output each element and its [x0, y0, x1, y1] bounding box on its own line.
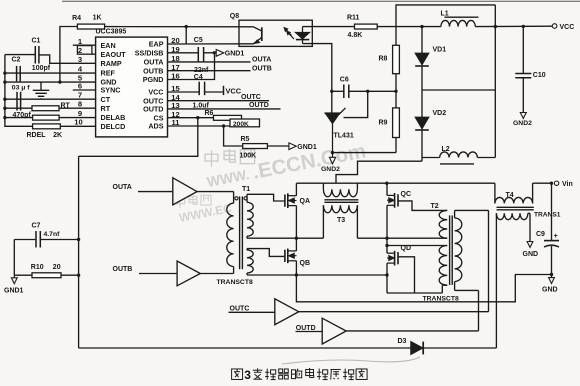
svg-text:Vin: Vin [562, 181, 573, 188]
node C7 rail tap [77, 238, 80, 241]
wire EAP drop [185, 27, 187, 44]
svg-text:C2: C2 [12, 57, 21, 64]
resistor R4 [77, 24, 104, 29]
wire pin1 stub [73, 44, 96, 46]
wire C1 to pin3 [39, 55, 96, 63]
wire pin18 OUTA line [168, 61, 251, 63]
wire pin8 line [5, 107, 32, 109]
svg-text:D3: D3 [398, 338, 407, 345]
svg-text:RT: RT [61, 102, 71, 109]
svg-text:TL431: TL431 [334, 133, 354, 140]
svg-text:OUTB: OUTB [113, 266, 133, 273]
node QB source rail [295, 273, 298, 276]
wire bridge rail [296, 182, 495, 184]
inductor L2 bar [440, 163, 474, 165]
diode VD1 [421, 27, 423, 54]
wire T2 lower top [387, 245, 447, 247]
svg-text:EAP: EAP [149, 40, 164, 49]
wire C1 left [5, 54, 35, 56]
svg-text:OUTA: OUTA [144, 58, 164, 67]
ground on pin5 [40, 82, 42, 90]
optocoupler light arrows [285, 29, 291, 36]
wire pin4 line [5, 72, 96, 74]
capacitor C9 [551, 183, 553, 240]
wire Vin rail [533, 182, 553, 184]
svg-text:GND2: GND2 [321, 166, 340, 173]
wire T4 sec right to GND [528, 212, 530, 214]
node rail-pin7 [3, 98, 6, 101]
wire QD source to T2 bottom [387, 292, 442, 294]
transformer T1 polarity dots [235, 197, 238, 200]
svg-text:C1: C1 [32, 38, 41, 45]
node T3 left tap [295, 237, 298, 240]
node R10 rail tap [77, 274, 80, 277]
diode D3 [411, 342, 423, 355]
resistor 200K box [230, 119, 260, 127]
wire pin7 line [5, 98, 96, 100]
caption text [232, 369, 243, 379]
transformer T2 upper left winding [439, 210, 447, 238]
wire GND return [296, 275, 551, 302]
wire OUTC output [299, 311, 489, 313]
inductor L1 bar [445, 16, 479, 18]
svg-text:DELAB: DELAB [101, 113, 126, 122]
capacitor C1 [34, 46, 36, 64]
wire T2 right top to OUTC [455, 209, 489, 211]
ground GND arrow T4 [527, 242, 533, 248]
wire TL431 ref [344, 91, 368, 117]
svg-text:1K: 1K [93, 15, 102, 22]
resistor RT [32, 106, 59, 111]
wire R5 to GND1 [267, 145, 288, 147]
wire R8node to L1 [396, 26, 441, 28]
svg-text:4.7nf: 4.7nf [44, 231, 61, 238]
resistor RDEL [33, 124, 61, 129]
buffer OUTA [173, 178, 197, 205]
transformer T1 secondary upper [246, 194, 248, 202]
wire CS down-left [79, 118, 198, 157]
svg-text:OUTB: OUTB [143, 66, 163, 75]
transistor Q8 phototransistor [261, 27, 263, 41]
wire pin15 VCC line [168, 91, 200, 93]
buffer OUTC [275, 299, 299, 325]
wire T2 upper bottom [387, 237, 447, 239]
wire opto to R11 [303, 26, 355, 28]
capacitor C4 [198, 82, 200, 96]
resistor R6 [214, 115, 242, 120]
svg-text:3: 3 [244, 368, 251, 382]
capacitor CT [16, 92, 18, 111]
node rail-EAP tap [185, 25, 188, 28]
transformer T1 secondary lower [246, 249, 248, 250]
svg-text:T2: T2 [431, 203, 439, 210]
buffer OUTD [322, 318, 346, 344]
ground GND2 arrow [332, 153, 334, 158]
wire pin2 stub [92, 53, 96, 55]
node left rail [5, 55, 33, 127]
node TL431 ref tap [366, 90, 369, 93]
node QD source rail [385, 273, 388, 276]
svg-text:+: + [554, 231, 559, 240]
svg-text:OUTD: OUTD [143, 105, 163, 114]
buffer OUTB [177, 261, 200, 286]
svg-text:VD2: VD2 [433, 110, 447, 117]
wire VD1-VD2 mid [422, 89, 495, 91]
box around pin 2 number [77, 46, 92, 55]
inductor L2 [422, 157, 440, 159]
wire T3 right to QC-QD node [357, 237, 387, 239]
svg-text:SYNC: SYNC [101, 86, 121, 95]
transformer T4 primary [494, 183, 496, 203]
node QC drain tap [385, 182, 388, 185]
svg-text:OUTD: OUTD [249, 102, 269, 109]
svg-text:100K: 100K [240, 153, 257, 160]
wire OUTD input [296, 331, 323, 333]
ground GND1 arrow pin19 [216, 50, 224, 57]
wire pin20 EAP line [168, 43, 254, 45]
node right-loop top [494, 25, 497, 28]
node VD1 tap [420, 25, 423, 28]
wire TL431 to R9 bottom [333, 152, 397, 154]
svg-text:R8: R8 [379, 56, 388, 63]
node rail-pin5 [3, 80, 6, 83]
svg-text:C6: C6 [340, 77, 349, 84]
resistor R5 [243, 144, 268, 149]
node QC-QD T3 tap [385, 237, 388, 240]
node GND2 junction [331, 151, 334, 154]
transformer T3 bottom winding [323, 205, 357, 212]
svg-text:RDEL: RDEL [27, 132, 47, 139]
svg-text:EAN: EAN [101, 41, 116, 50]
power VCC bar [223, 86, 225, 95]
wire L1 to VCC [475, 25, 552, 27]
node rail-pin9 [3, 116, 6, 119]
svg-text:6: 6 [78, 82, 82, 91]
inductor L1 [441, 20, 475, 26]
svg-text:GND1: GND1 [4, 287, 24, 294]
terminal VCC [552, 24, 557, 29]
svg-text:R6: R6 [205, 110, 214, 117]
svg-text:VCC: VCC [560, 24, 575, 31]
svg-text:GND1: GND1 [297, 144, 317, 151]
wire right loop vertical [494, 5, 496, 158]
wire T1 upper bottom to T3 [246, 236, 248, 238]
svg-text:L1: L1 [441, 10, 449, 17]
node C9 tap [550, 182, 553, 185]
wire T1 lower to QB gate [247, 249, 284, 257]
wire R5 drop [224, 126, 243, 146]
svg-text:OUTC: OUTC [230, 305, 250, 312]
wire T2 right bottom to OUTD [455, 289, 479, 291]
capacitor C2 [16, 66, 18, 81]
ground GND2 arrow C10 [520, 113, 526, 119]
wire pin14 OUTC line [168, 100, 270, 102]
node R4-pin5 [58, 80, 61, 83]
node CS tap [196, 116, 199, 119]
wire pin6 stub [73, 89, 96, 91]
wire OUTA to T1 [197, 191, 234, 193]
wire LED cathode to TL431 [303, 44, 332, 114]
resistor R-DELAB [33, 115, 60, 120]
transformer T2 right winding [454, 210, 456, 218]
svg-text:RT: RT [101, 104, 111, 113]
wire pin12 CS line [168, 117, 214, 119]
svg-text:QC: QC [401, 191, 412, 198]
wire top rail [396, 5, 495, 27]
svg-text:C5: C5 [194, 37, 203, 44]
svg-text:OUTC: OUTC [241, 94, 261, 101]
wire C7-R10 left [13, 240, 15, 276]
wire pin9 line [5, 117, 33, 119]
svg-text:C9: C9 [536, 231, 545, 238]
svg-text:03 μ f: 03 μ f [12, 85, 30, 92]
transformer T2 core [449, 215, 451, 285]
wire OUTB input [139, 273, 177, 275]
svg-text:SS/DISB: SS/DISB [135, 48, 164, 57]
wire T1 upper to QA gate [247, 194, 284, 201]
node rail-pin8 [3, 107, 6, 110]
wire pin10 line [60, 125, 95, 127]
wire QA drain [295, 183, 297, 196]
diode VD2 [421, 90, 423, 117]
svg-text:QA: QA [300, 198, 311, 205]
svg-text:100pf: 100pf [32, 65, 51, 72]
resistor R11 [355, 24, 378, 29]
wire QD source down [386, 263, 388, 293]
svg-text:GND1: GND1 [225, 51, 245, 58]
wire R4 left corner [60, 27, 78, 83]
wire left tall rail [78, 156, 80, 348]
watermark [175, 139, 367, 225]
svg-text:4.8K: 4.8K [348, 32, 363, 39]
resistor R8 [395, 27, 397, 46]
svg-text:3: 3 [78, 55, 82, 64]
svg-text:OUTD: OUTD [296, 325, 316, 332]
wire T2 lower bottom jog [442, 284, 447, 286]
svg-text:TRANS1: TRANS1 [534, 211, 561, 218]
photodiode Q8 LED [302, 27, 304, 33]
wire R11 to R8 node [377, 26, 396, 28]
transformer T1 core [239, 196, 241, 269]
resistor R9 [395, 91, 397, 108]
wire QC source to QD drain [386, 205, 388, 253]
scan artifact line [282, 357, 420, 364]
svg-text:QB: QB [300, 260, 311, 267]
wire pin16 PGND line [168, 55, 215, 80]
wire QC drain [386, 183, 388, 195]
transformer T3 core [324, 199, 358, 201]
svg-text:R11: R11 [347, 14, 360, 21]
transformer T2 lower left winding [439, 246, 447, 286]
svg-text:T1: T1 [242, 186, 250, 193]
svg-text:VD1: VD1 [433, 47, 447, 54]
wire bottom rail to D3 [79, 347, 411, 349]
svg-text:CT: CT [101, 95, 111, 104]
capacitor C10 [522, 26, 524, 73]
node rail-pin4 [3, 71, 6, 74]
svg-text:R5: R5 [241, 136, 250, 143]
wire QA source to QB drain [295, 206, 297, 251]
svg-text:REF: REF [101, 69, 116, 78]
terminal Vin [554, 181, 558, 185]
svg-text:C7: C7 [32, 223, 41, 230]
wire R4 to optocoupler [105, 26, 254, 28]
wire pin5 line [5, 81, 96, 83]
IC U1 body [96, 37, 168, 137]
svg-text:GND2: GND2 [513, 120, 532, 127]
border top edge [62, 0, 580, 2]
svg-text:C4: C4 [194, 74, 203, 81]
wire OUTC input [229, 311, 275, 313]
resistor R10 [14, 274, 32, 276]
node ADS tap [222, 124, 225, 127]
svg-text:OUTA: OUTA [252, 57, 271, 64]
transformer T1 primary [233, 192, 235, 204]
transformer T4 core [497, 206, 534, 208]
svg-text:EAOUT: EAOUT [101, 50, 127, 59]
svg-text:VCC: VCC [148, 88, 163, 97]
svg-text:20: 20 [53, 264, 61, 271]
transistor QB [284, 250, 286, 262]
ground GND1 arrow bottom left [13, 275, 15, 278]
wire OUTB to T1 [200, 273, 233, 275]
svg-text:GND: GND [523, 251, 539, 258]
svg-text:T3: T3 [337, 217, 345, 224]
svg-text:DELCD: DELCD [101, 122, 126, 131]
wire pin13 OUTD line [168, 108, 281, 110]
transistor QC [394, 193, 396, 208]
svg-text:2K: 2K [53, 132, 62, 139]
transformer T4 secondary [496, 213, 528, 219]
svg-text:8: 8 [78, 100, 82, 109]
node C9 GND junction [550, 273, 553, 276]
svg-text:Q8: Q8 [230, 13, 239, 20]
svg-text:OUTB: OUTB [252, 66, 272, 73]
svg-text:GND: GND [542, 286, 558, 293]
wire QB source [295, 261, 297, 275]
svg-text:PGND: PGND [143, 75, 164, 84]
node C6 left tap [330, 90, 333, 93]
wire bottom bridge rail [247, 274, 387, 276]
wire pin19 line [168, 52, 199, 54]
svg-text:R10: R10 [31, 264, 44, 271]
ground GND arrow C9 [551, 275, 553, 278]
svg-text:RAMP: RAMP [101, 59, 122, 68]
node R8-R9 [394, 90, 397, 93]
svg-text:C10: C10 [533, 72, 546, 79]
transistor QA [284, 195, 286, 207]
node T2 lower top tap [385, 244, 388, 247]
node pin19-pin16 join [213, 51, 216, 54]
ground GND1 arrow R5 [289, 143, 296, 150]
wire OUTD output [346, 330, 478, 332]
node C10 tap [522, 25, 525, 28]
svg-text:200K: 200K [233, 121, 249, 128]
capacitor C7 [14, 239, 35, 241]
svg-text:10: 10 [74, 118, 82, 127]
svg-text:VCC: VCC [226, 87, 242, 96]
wire OUTA input [138, 191, 173, 193]
wire QD gate [398, 257, 415, 293]
shunt regulator TL431 [325, 112, 341, 114]
svg-text:ADS: ADS [148, 122, 163, 131]
capacitor C5 [197, 47, 199, 62]
svg-text:OUTA: OUTA [113, 184, 132, 191]
wire D3 to T4 return [423, 347, 496, 349]
wire pin17 OUTB line [168, 70, 251, 72]
transformer T3 top winding [322, 183, 324, 189]
svg-text:R9: R9 [379, 120, 388, 127]
svg-text:R4: R4 [72, 15, 81, 22]
svg-text:9: 9 [78, 109, 82, 118]
optocoupler Q8 body [239, 20, 312, 46]
capacitor C6 [332, 90, 343, 92]
wire VD2 staircase to bridge rail [336, 161, 422, 183]
svg-text:7: 7 [78, 91, 82, 100]
wire pin11 ADS line [168, 125, 231, 127]
svg-text:TRANSCT8: TRANSCT8 [217, 279, 253, 286]
wire QC gate to T2 [398, 201, 447, 211]
transistor QD [394, 251, 396, 266]
